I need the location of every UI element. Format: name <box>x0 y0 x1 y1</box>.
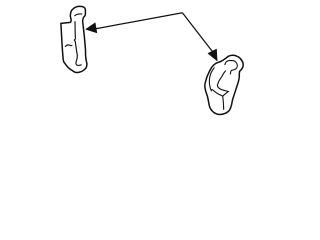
left clip outline <box>61 6 87 72</box>
pointer line to right clip <box>182 13 212 51</box>
right clip tab inner rolled edge <box>225 61 237 74</box>
right clip outline <box>205 55 243 114</box>
right clip fold line <box>217 71 228 96</box>
arrowhead at right clip <box>208 49 217 61</box>
right clip bottom vertical crease <box>223 96 224 109</box>
pointer line to left clip <box>96 13 183 29</box>
left clip fold line <box>74 22 81 66</box>
right clip lower diagonal crease <box>212 89 223 96</box>
left clip tab crease <box>75 14 82 16</box>
left clip face squiggle <box>65 45 72 47</box>
arrowhead at left clip <box>86 23 97 33</box>
right clip upper-left inner parallel line <box>209 68 214 91</box>
